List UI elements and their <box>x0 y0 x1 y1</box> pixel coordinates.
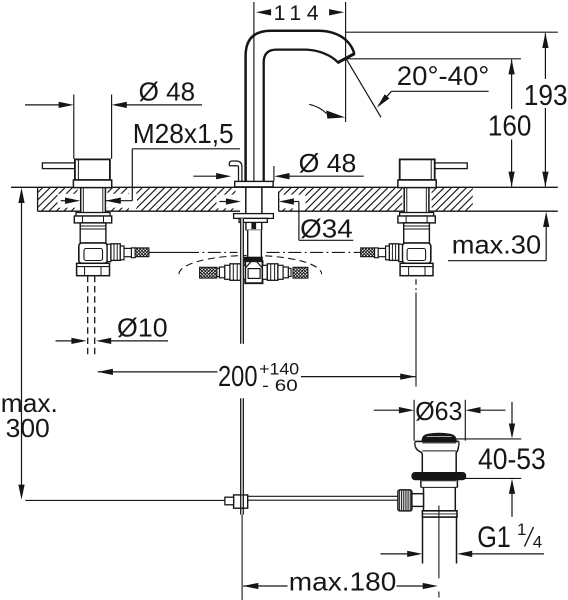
svg-text:20°-40°: 20°-40° <box>397 61 490 91</box>
svg-text:G1: G1 <box>477 521 511 554</box>
svg-text:Ø 48: Ø 48 <box>139 77 196 107</box>
svg-text:Ø63: Ø63 <box>415 396 462 426</box>
svg-text:Ø 48: Ø 48 <box>299 148 357 178</box>
svg-text:1: 1 <box>517 520 526 539</box>
svg-text:40-53: 40-53 <box>478 443 546 476</box>
svg-text:Ø10: Ø10 <box>117 312 168 342</box>
svg-text:4: 4 <box>533 532 542 551</box>
svg-text:300: 300 <box>6 413 50 443</box>
svg-text:M28x1,5: M28x1,5 <box>133 118 234 149</box>
svg-text:193: 193 <box>524 80 568 112</box>
svg-text:- 60: - 60 <box>262 376 298 395</box>
svg-text:160: 160 <box>488 111 532 143</box>
svg-text:114: 114 <box>274 1 319 25</box>
svg-text:max.180: max.180 <box>289 567 397 597</box>
svg-text:max.30: max.30 <box>452 230 541 260</box>
svg-text:200: 200 <box>218 361 258 393</box>
svg-text:Ø34: Ø34 <box>300 213 353 243</box>
